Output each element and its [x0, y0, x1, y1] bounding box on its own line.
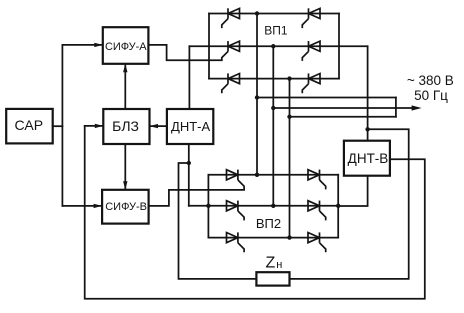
- svg-text:н: н: [276, 259, 282, 271]
- svg-text:ДНТ-А: ДНТ-А: [171, 119, 210, 134]
- svg-text:Z: Z: [266, 255, 276, 272]
- svg-text:ВП2: ВП2: [256, 216, 281, 231]
- svg-text:ДНТ-В: ДНТ-В: [348, 151, 389, 166]
- svg-text:СИФУ-А: СИФУ-А: [105, 41, 147, 53]
- svg-text:БЛЗ: БЛЗ: [112, 118, 139, 134]
- svg-text:ВП1: ВП1: [264, 23, 288, 37]
- svg-text:СИФУ-В: СИФУ-В: [105, 201, 147, 213]
- svg-text:САР: САР: [15, 117, 43, 133]
- svg-text:50 Гц: 50 Гц: [414, 88, 448, 103]
- svg-text:~ 380 В: ~ 380 В: [407, 73, 454, 88]
